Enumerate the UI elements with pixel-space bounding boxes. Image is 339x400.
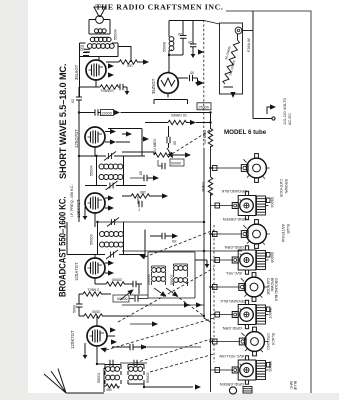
svg-text:AC-DC: AC-DC	[288, 113, 292, 125]
svg-text:WHT-: WHT-	[289, 381, 293, 391]
svg-text:110-120 VOLTS: 110-120 VOLTS	[283, 98, 287, 125]
svg-text:12SK7GT: 12SK7GT	[70, 330, 75, 349]
svg-text:5000: 5000	[73, 305, 77, 313]
svg-text:THE RADIO CRAFTSMEN INC.: THE RADIO CRAFTSMEN INC.	[96, 3, 224, 12]
svg-text:GRID-GREEN: GRID-GREEN	[222, 217, 247, 221]
svg-text:450: 450	[106, 388, 112, 392]
svg-text:CATHODE: CATHODE	[279, 179, 283, 198]
svg-text:160: 160	[127, 64, 133, 68]
svg-text:GRID-GRN.: GRID-GRN.	[224, 245, 244, 249]
svg-text:.02: .02	[80, 47, 85, 51]
svg-text:.05: .05	[172, 239, 177, 243]
svg-text:GROUND-BLU.: GROUND-BLU.	[219, 299, 246, 303]
svg-text:15 OHMS.: 15 OHMS.	[170, 113, 187, 117]
svg-text:55006: 55006	[147, 274, 151, 285]
svg-text:20: 20	[188, 40, 192, 44]
svg-text:35L6GT: 35L6GT	[74, 64, 79, 80]
svg-text:J: J	[138, 208, 140, 212]
svg-text:.05: .05	[173, 141, 177, 146]
svg-text:BLUE: BLUE	[286, 224, 290, 234]
svg-text:1/2 MEG.: 1/2 MEG.	[153, 138, 157, 153]
svg-text:GROUND-BLK.: GROUND-BLK.	[221, 189, 247, 193]
svg-text:05: 05	[190, 71, 194, 75]
svg-text:55002: 55002	[146, 372, 150, 383]
svg-text:SHORT WAVE 5.5–18.0 MC.: SHORT WAVE 5.5–18.0 MC.	[58, 64, 68, 179]
svg-text:20: 20	[178, 32, 182, 36]
svg-text:GRID-GRN.: GRID-GRN.	[222, 326, 242, 330]
svg-text:MODEL 6 tube: MODEL 6 tube	[224, 129, 267, 136]
svg-text:BLUE: BLUE	[293, 381, 297, 391]
svg-text:35Z5GT: 35Z5GT	[151, 78, 156, 94]
svg-text:12SA7GT: 12SA7GT	[74, 262, 79, 281]
svg-text:55008: 55008	[270, 252, 274, 263]
svg-text:BLACK: BLACK	[271, 333, 275, 346]
svg-text:.02: .02	[71, 99, 75, 104]
svg-text:12SK7GT: 12SK7GT	[76, 199, 81, 218]
svg-text:55007: 55007	[268, 308, 272, 319]
svg-text:GROUND-BLK: GROUND-BLK	[274, 278, 278, 302]
svg-text:2 MEG.: 2 MEG.	[87, 288, 99, 292]
svg-text:CATHODE: CATHODE	[266, 278, 270, 296]
svg-text:22000: 22000	[102, 111, 112, 115]
svg-text:BROWN: BROWN	[270, 278, 274, 292]
svg-text:ANTENNA: ANTENNA	[281, 224, 285, 243]
svg-text:3MEG.: 3MEG.	[202, 181, 206, 192]
svg-text:GRID-GREEN: GRID-GREEN	[219, 382, 244, 386]
svg-text:55005: 55005	[268, 361, 272, 372]
svg-text:55004: 55004	[90, 165, 94, 176]
svg-text:GROUND: GROUND	[266, 333, 270, 350]
svg-text:55008: 55008	[163, 42, 167, 52]
svg-text:I.F. FREQ. 456 KC.: I.F. FREQ. 456 KC.	[70, 185, 74, 218]
svg-text:55001: 55001	[97, 372, 101, 383]
svg-text:1/2MEG.: 1/2MEG.	[100, 89, 114, 93]
svg-text:.05: .05	[139, 171, 143, 176]
svg-text:55003: 55003	[90, 234, 94, 245]
svg-text:55004: 55004	[270, 197, 274, 208]
svg-text:12SQ7GT: 12SQ7GT	[74, 129, 79, 148]
svg-text:50000: 50000	[171, 162, 181, 166]
svg-text:AVC-YEL.: AVC-YEL.	[225, 271, 242, 275]
svg-text:BROADCAST 550–1600 KC.: BROADCAST 550–1600 KC.	[57, 197, 68, 297]
svg-text:BROWN: BROWN	[284, 179, 288, 194]
svg-text:AVC-YELLOW: AVC-YELLOW	[219, 354, 244, 358]
svg-text:1/2 MEG: 1/2 MEG	[203, 130, 207, 144]
svg-text:2000: 2000	[92, 310, 100, 314]
svg-text:20000: 20000	[112, 278, 122, 282]
svg-text:F26A.W: F26A.W	[247, 38, 251, 52]
svg-text:55009: 55009	[114, 29, 118, 40]
